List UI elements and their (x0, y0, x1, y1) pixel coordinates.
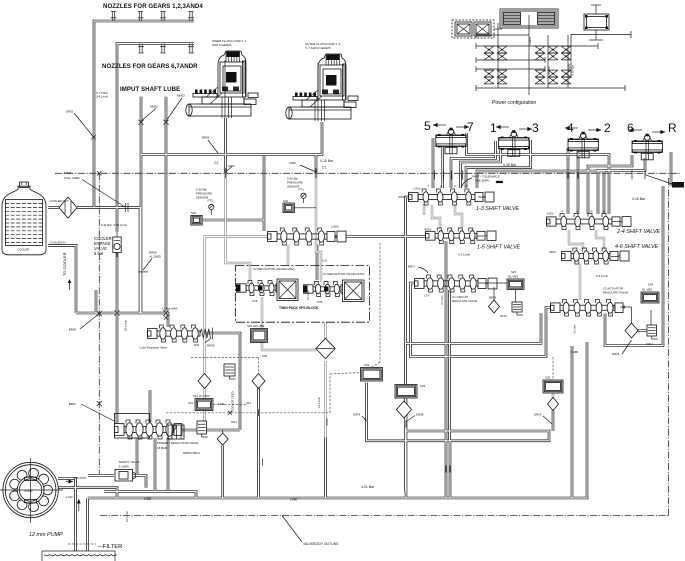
svg-text:SENSOR: SENSOR (287, 185, 299, 189)
node dr labels (353, 413, 552, 425)
filter diamond S35 (548, 398, 559, 411)
svg-text:S11: S11 (246, 401, 251, 405)
node leader MN3 (166, 94, 185, 122)
svg-text:DR08: DR08 (416, 413, 424, 417)
svg-text:2: 2 (604, 121, 611, 135)
svg-text:4: 4 (567, 121, 574, 135)
svg-text:21 BAR: 21 BAR (119, 465, 129, 469)
svg-text:TO COOLER: TO COOLER (62, 252, 67, 276)
node vertical centreline left (98, 173, 100, 474)
svg-text:AND 6 GEARS: AND 6 GEARS (211, 43, 232, 47)
svg-text:BR06: BR06 (69, 328, 77, 332)
svg-text:SUCTION: SUCTION (74, 476, 87, 480)
accumulator 1 (512, 302, 523, 315)
svg-text:ALCHED: ALCHED (149, 255, 161, 259)
svg-text:SEE (BAR): SEE (BAR) (475, 179, 489, 183)
node junction marks (97, 120, 645, 407)
node leader OR02 (66, 110, 96, 140)
svg-text:3 L/min: 3 L/min (573, 324, 577, 334)
outer clutch assembly (286, 54, 358, 119)
cylinder 6-R (632, 134, 662, 160)
svg-text:C1 REGULATOR VALVE(C1RV): C1 REGULATOR VALVE(C1RV) (323, 272, 365, 276)
svg-text:0-45 Bar: 0-45 Bar (503, 163, 517, 167)
svg-text:0-15 Bar: 0-15 Bar (571, 65, 575, 76)
accumulator 2 (647, 325, 658, 339)
svg-text:S21 HY VBS: S21 HY VBS (193, 394, 210, 398)
svg-text:24SV: 24SV (547, 212, 554, 216)
accumulator S21b (197, 421, 208, 437)
svg-text:18 BAR: 18 BAR (157, 446, 167, 450)
svg-text:REGULATE VALVE: REGULATE VALVE (452, 299, 477, 303)
svg-text:LINE: LINE (144, 497, 152, 501)
node right cluster links (478, 283, 653, 356)
svg-text:S924: S924 (646, 342, 653, 346)
svg-text:IMPUT SHAFT LUBE: IMPUT SHAFT LUBE (120, 86, 180, 93)
node main horizontal centreline (55, 172, 680, 174)
svg-text:S03: S03 (191, 211, 197, 215)
svg-text:LHEV: LHEV (332, 225, 340, 229)
svg-text:S35: S35 (545, 376, 551, 380)
node leader C2 group (226, 165, 317, 172)
svg-text:BR24: BR24 (64, 171, 72, 175)
svg-text:3: 3 (532, 121, 539, 135)
svg-text:S23: S23 (511, 270, 517, 274)
svg-text:12 Bar MAX: 12 Bar MAX (162, 307, 178, 311)
svg-text:LINE: LINE (290, 498, 298, 502)
valve 1-3 shift (409, 189, 495, 205)
svg-text:HL VBS: HL VBS (642, 288, 652, 292)
svg-text:0-3 L/min: 0-3 L/min (596, 274, 608, 278)
svg-text:C2: C2 (214, 161, 218, 165)
node leader BR26 (69, 315, 98, 332)
svg-text:LTV: LTV (425, 294, 430, 298)
svg-text:PRIMARY REGULATOR VALVE: PRIMARY REGULATOR VALVE (157, 441, 198, 445)
svg-text:1-5 SHIFT VALVE: 1-5 SHIFT VALVE (477, 245, 521, 251)
cooler out diamond (59, 197, 77, 218)
svg-text:S123: S123 (500, 314, 507, 318)
svg-text:S24: S24 (648, 283, 654, 287)
svg-text:S02: S02 (283, 199, 289, 203)
svg-text:S22 HW VBS: S22 HW VBS (247, 324, 264, 328)
valve 1-5 shift (426, 228, 497, 244)
node br17 (408, 265, 428, 274)
node tocooler arrow (68, 279, 72, 290)
node 10lmin (124, 320, 128, 331)
svg-text:PT2: PT2 (208, 199, 214, 203)
svg-text:C01: C01 (322, 259, 328, 263)
svg-text:4-6 SHIFT VALVE: 4-6 SHIFT VALVE (615, 244, 659, 250)
wire S35 drain (0, 0, 1, 1)
cylinder 1-3 (499, 130, 529, 156)
wire inner clutch pipes (222, 60, 232, 118)
svg-text:N8000 SBUA: N8000 SBUA (183, 451, 200, 455)
svg-text:OR L: OR L (231, 420, 238, 424)
svg-text:R: R (591, 210, 593, 214)
svg-text:S33: S33 (420, 384, 426, 388)
cooler bypass valve (113, 232, 121, 257)
node small stubs (398, 197, 620, 257)
svg-text:DR04: DR04 (353, 413, 361, 417)
node nozzle row 1 (111, 12, 195, 22)
cooler (2, 182, 46, 255)
filter diamond r1 (489, 300, 500, 313)
svg-text:FULL CHEK: FULL CHEK (64, 176, 80, 180)
svg-text:OR02: OR02 (66, 110, 74, 114)
svg-text:5: 5 (424, 119, 431, 133)
svg-text:7: 7 (467, 120, 474, 134)
node part tol (461, 175, 503, 189)
svg-text:REGULATE VALVE: REGULATE VALVE (603, 291, 628, 295)
solenoid S22 (247, 324, 268, 343)
filter diamond LHEV drain (198, 374, 211, 389)
svg-text:6: 6 (627, 121, 634, 135)
solenoid S21 (193, 394, 224, 411)
valve C2 regulator (237, 281, 285, 304)
svg-text:LOW: LOW (66, 495, 73, 499)
svg-text:C802: C802 (289, 161, 296, 165)
valve C1 regulator (304, 259, 350, 305)
node pilot dashes (166, 243, 553, 413)
valve S35 (543, 376, 563, 394)
svg-text:1-3 SHIFT VALVE: 1-3 SHIFT VALVE (476, 206, 520, 212)
svg-text:S31: S31 (364, 363, 370, 367)
svg-text:3 L/min: 3 L/min (440, 295, 444, 305)
svg-text:MN03: MN03 (177, 94, 185, 98)
svg-text:LSSV: LSSV (414, 187, 421, 191)
svg-text:C801: C801 (228, 164, 235, 168)
filter diamond r2 (625, 323, 638, 338)
sensor PT2 (191, 188, 214, 226)
svg-text:S22: S22 (262, 354, 268, 358)
node leader MN2 (141, 105, 158, 122)
svg-text:S32: S32 (194, 343, 200, 347)
node orl label (217, 420, 238, 445)
svg-text:C05: C05 (317, 300, 323, 304)
node leader BR14 (143, 251, 161, 271)
node cooler out label (50, 199, 69, 203)
check valve cooler line (125, 203, 128, 212)
svg-text:HL VBS: HL VBS (508, 275, 518, 279)
valve S33 (395, 384, 426, 398)
svg-text:8 L/min: 8 L/min (306, 290, 310, 300)
valve lube regulator (148, 325, 213, 342)
svg-text:MN02: MN02 (150, 105, 158, 109)
svg-text:4SSV: 4SSV (424, 228, 431, 232)
inner clutch assembly (186, 51, 258, 116)
svg-text:BR08: BR08 (207, 344, 215, 348)
svg-text:PT1: PT1 (299, 188, 305, 192)
filter diamond mid (397, 401, 412, 418)
node c2 actuator label (603, 287, 628, 295)
node nozzle row 2 (138, 44, 194, 54)
solenoid HL VBS 1 (507, 270, 524, 290)
svg-text:R: R (668, 121, 677, 135)
wire outer clutch pipes (315, 63, 325, 121)
accumulator S21 (224, 364, 236, 379)
pump (0, 458, 63, 523)
valve safety (115, 460, 140, 481)
svg-text:COOLED IN: COOLED IN (50, 240, 66, 244)
node ports 24r6 (562, 209, 606, 214)
node valve tags (332, 187, 557, 298)
svg-text:0-3 L/min: 0-3 L/min (458, 253, 470, 257)
svg-text:12 mm PUMP: 12 mm PUMP (29, 532, 63, 538)
svg-text:DR14: DR14 (534, 413, 542, 417)
svg-text:2-4 SHIFT VALVE: 2-4 SHIFT VALVE (616, 229, 661, 235)
svg-text:46SV: 46SV (549, 250, 556, 254)
svg-text:DR16: DR16 (612, 352, 620, 356)
svg-text:5, 7 AND R GEARS: 5, 7 AND R GEARS (305, 46, 331, 50)
valve 2-4 shift (547, 214, 632, 230)
node suction arrow (77, 499, 81, 511)
node gear numerals (424, 119, 677, 135)
node cooler in label (50, 240, 66, 244)
svg-text:SAFETY VALVE: SAFETY VALVE (119, 460, 140, 464)
svg-text:12 L/min: 12 L/min (317, 397, 321, 408)
solenoid C2RV xbox (277, 279, 298, 301)
cylinder 4-2 (568, 132, 598, 158)
valve 4-6 shift (562, 248, 630, 264)
valve primary regulator (115, 414, 185, 440)
sump (42, 544, 117, 561)
node leader BR05 (202, 136, 218, 154)
svg-text:LINE: LINE (218, 402, 224, 406)
valve C2 actuator regulate (551, 300, 624, 317)
sensor PT1 (283, 177, 316, 213)
svg-text:10 L/min: 10 L/min (125, 511, 129, 522)
node primary labels (157, 441, 200, 455)
cylinder 5-7 (436, 128, 466, 154)
svg-text:BR17: BR17 (408, 265, 416, 269)
twin pack outline (235, 266, 369, 323)
wire network gray (205, 173, 605, 437)
svg-text:2-4 L/min: 2-4 L/min (96, 95, 108, 99)
svg-text:PUMP: PUMP (25, 489, 33, 493)
svg-text:BR36: BR36 (489, 296, 497, 300)
node valvebody outline bottom (100, 515, 669, 517)
svg-text:COOLER FEED: COOLER FEED (231, 391, 235, 412)
svg-text:Shaft1: Shaft1 (528, 36, 532, 45)
valve S31 (361, 363, 383, 381)
node valvebody outline right (668, 178, 670, 516)
svg-text:Power configuration: Power configuration (492, 100, 536, 106)
node s32 label (194, 338, 215, 348)
filter diamond S22 (252, 374, 265, 389)
power configuration (452, 5, 631, 95)
svg-text:10 L/min: 10 L/min (124, 320, 128, 331)
svg-text:—FILTER: —FILTER (97, 544, 122, 550)
svg-text:TWIN PACK VFS BLOCK: TWIN PACK VFS BLOCK (279, 306, 319, 310)
svg-text:0-11 Bar, 0-80 L/min: 0-11 Bar, 0-80 L/min (101, 223, 127, 227)
svg-text:1: 1 (490, 121, 497, 135)
svg-text:BR05: BR05 (202, 136, 210, 140)
node suction label (66, 476, 87, 484)
svg-text:24MB: 24MB (571, 350, 579, 354)
node cooler bypass label (94, 236, 112, 256)
node full chek label (64, 171, 125, 207)
node lube reg label (140, 307, 178, 350)
svg-text:BR07: BR07 (69, 402, 77, 406)
filter diamond twin (316, 338, 336, 358)
svg-text:NOZZLES FOR GEARS 1,2,3AND4: NOZZLES FOR GEARS 1,2,3AND4 (103, 3, 203, 10)
svg-text:5 bar: 5 bar (94, 251, 104, 256)
svg-text:S21: S21 (188, 401, 194, 405)
svg-text:VALVEBODY OUTLINE: VALVEBODY OUTLINE (303, 542, 339, 546)
svg-text:C1: C1 (322, 166, 326, 170)
svg-text:NOZZLES FOR GEARS 6,7ANDR: NOZZLES FOR GEARS 6,7ANDR (102, 63, 198, 70)
svg-text:0-16 Bar: 0-16 Bar (632, 197, 646, 201)
node s21 s11 marks (188, 354, 268, 405)
valve LTV (415, 275, 498, 292)
svg-text:SENSOR: SENSOR (196, 196, 208, 200)
svg-text:Lube Regulator Valve: Lube Regulator Valve (140, 346, 168, 350)
node cooler feed label (231, 391, 322, 412)
svg-text:4-21 Bar: 4-21 Bar (361, 485, 375, 489)
solenoid HL VBS 2 (641, 283, 659, 304)
svg-text:C2 REGULATOR VALVE(C2RV): C2 REGULATOR VALVE(C2RV) (253, 267, 295, 271)
node flow labels (125, 253, 608, 523)
svg-text:COOLER: COOLER (17, 248, 29, 252)
svg-text:0-15 Bar: 0-15 Bar (320, 159, 334, 163)
node low label (66, 495, 73, 499)
svg-text:C15: C15 (252, 299, 258, 303)
node opu box (645, 175, 684, 188)
solenoid C1RV xbox (343, 280, 365, 302)
node ports 7531 (428, 184, 468, 189)
node junction marks 2 (164, 316, 450, 473)
node gear arrows (433, 123, 665, 134)
svg-text:COOLER OUT: COOLER OUT (50, 199, 69, 203)
valve LHEV (268, 228, 347, 245)
node leader BR07 (69, 402, 114, 421)
node c1 circuit label (452, 295, 477, 303)
